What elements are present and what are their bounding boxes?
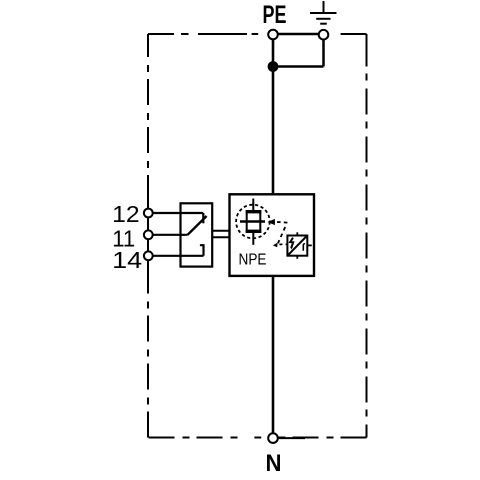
spark gap top electrode	[246, 210, 262, 213]
wire junction to right	[273, 65, 324, 68]
enclosure dash-dot border left lower	[147, 34, 149, 201]
wire ground terminal down	[322, 39, 325, 67]
contact 14 fixed tick	[200, 245, 204, 256]
gap in border dash left of N terminal	[244, 435, 254, 442]
spark gap bottom electrode	[246, 230, 262, 233]
trigger dashed line horizontal	[277, 221, 287, 224]
wire PE terminal to ground terminal	[273, 33, 324, 36]
terminal 12	[144, 209, 153, 218]
svg-text:12: 12	[112, 201, 140, 227]
trigger box lightning bolt	[290, 238, 293, 248]
terminal PE	[268, 30, 278, 40]
terminal 14	[144, 251, 153, 260]
enclosure dash-dot border right solid top	[366, 34, 368, 67]
enclosure dash-dot border left solid mid (through terminals)	[147, 201, 149, 268]
enclosure dash-dot border bottom	[148, 437, 367, 439]
enclosure dash-dot border right	[366, 67, 368, 438]
wire N vertical	[272, 276, 275, 434]
wire PE vertical main	[272, 38, 275, 194]
trigger box right stub	[307, 244, 312, 246]
contact 12 fixed tick	[202, 213, 204, 223]
trigger box bottom stub	[296, 256, 298, 259]
wire terminal 14	[153, 255, 204, 257]
trigger dashed link to box	[279, 243, 287, 245]
trigger dashed line diagonal	[278, 227, 285, 243]
switch lever (changeover contact)	[188, 216, 207, 235]
switch box outline	[181, 203, 213, 266]
terminal N	[268, 433, 278, 443]
svg-text:NPE: NPE	[239, 251, 267, 268]
trigger box diagonal	[288, 237, 306, 255]
spark gap top lead	[252, 199, 254, 211]
svg-text:PE: PE	[263, 1, 287, 29]
svg-text:14: 14	[112, 247, 142, 273]
enclosure dash-dot border top (explicit dashes)	[148, 33, 258, 35]
trigger box	[287, 236, 307, 256]
enclosure dash-dot border top-right	[341, 33, 367, 35]
trigger arrow head	[268, 219, 275, 225]
mechanical link upper line	[212, 230, 229, 232]
terminal 11	[144, 230, 153, 239]
trigger box top stub	[296, 232, 298, 235]
wire terminal 12	[153, 212, 204, 214]
mechanical link lower line	[212, 236, 229, 238]
spark gap right side	[259, 210, 261, 233]
trigger small arrow head	[273, 243, 278, 248]
ground symbol	[310, 1, 337, 24]
spark gap middle line	[240, 220, 265, 222]
junction node PE	[268, 61, 279, 72]
enclosure dash-dot border left upper	[147, 268, 149, 438]
gap in border left of N terminal	[261, 435, 267, 442]
trigger box small hook	[303, 244, 305, 251]
spark gap bottom lead	[252, 233, 254, 245]
spark gap left side	[246, 210, 248, 233]
wire terminal 11	[153, 234, 188, 236]
SPD module box (NPE)	[230, 194, 315, 276]
terminal ground	[319, 30, 329, 40]
spark gap dashed circle	[236, 205, 270, 239]
trigger box lightning arrow tip	[290, 247, 292, 250]
wire N terminal to right border	[278, 437, 305, 439]
svg-text:N: N	[266, 450, 282, 477]
